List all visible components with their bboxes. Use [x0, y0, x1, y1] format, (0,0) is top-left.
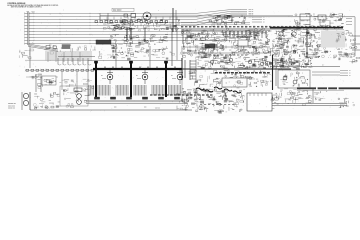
svg-text:CONTROL MODULE: CONTROL MODULE [7, 3, 26, 5]
svg-text:xxx xx: xxx xx [155, 108, 160, 110]
svg-text:xxxx xxx: xxxx xxx [8, 105, 15, 107]
svg-text:xxxxxx xx: xxxxxx xx [8, 103, 16, 105]
svg-text:xxxxx xx: xxxxx xx [8, 108, 15, 110]
